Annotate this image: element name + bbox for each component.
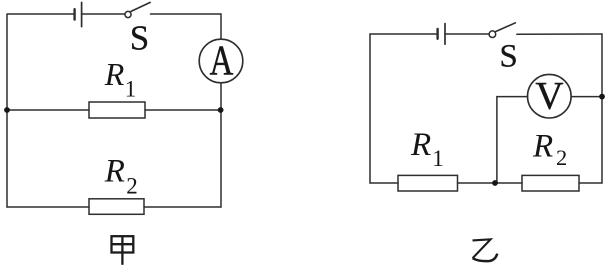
wire right of R2 (right circuit) <box>579 182 602 184</box>
wire battery to switch <box>82 13 125 15</box>
wire right-circuit left vertical <box>369 34 371 183</box>
wire left-circuit left vertical <box>6 14 8 207</box>
svg-text:S: S <box>130 19 149 58</box>
node right junction of R1 branch <box>218 107 224 113</box>
battery B2 long plate <box>444 24 446 45</box>
battery B2 short plate <box>436 29 438 39</box>
wire right-circuit top wire left part <box>370 33 437 35</box>
resistor R1 body (left circuit) <box>89 102 145 118</box>
node left junction of R1 branch <box>4 107 10 113</box>
resistor R1 body (right circuit) <box>398 175 458 191</box>
wire right-circuit right vertical <box>601 34 603 183</box>
node junction between R1 and R2 <box>492 180 498 186</box>
battery B1 long plate <box>81 2 83 26</box>
switch S2 lever <box>496 23 516 32</box>
wire switch to top-right corner <box>151 13 222 15</box>
wire switch to top-right corner (right) <box>517 33 602 35</box>
svg-text:1: 1 <box>125 77 137 102</box>
svg-text:V: V <box>535 74 563 117</box>
svg-text:A: A <box>210 38 234 85</box>
svg-text:R: R <box>104 56 125 92</box>
svg-text:2: 2 <box>556 145 567 170</box>
wire battery to switch (right) <box>445 33 489 35</box>
switch S1 pivot circle <box>125 11 131 17</box>
battery B1 short plate <box>73 9 75 19</box>
wire left-circuit top wire left part <box>8 13 75 15</box>
svg-text:R: R <box>532 129 553 165</box>
wire middle branch left of R1 <box>7 109 89 111</box>
label A inside ammeter <box>210 38 234 85</box>
wire bottom left of R1 (right circuit) <box>370 182 398 184</box>
wire voltmeter to right vertical <box>571 96 602 98</box>
ammeter U1 circle <box>199 39 243 83</box>
switch S2 pivot circle <box>489 31 496 38</box>
wire bottom right of R2 <box>144 206 221 208</box>
voltmeter U2 circle <box>528 74 572 118</box>
switch S1 lever <box>131 2 150 11</box>
resistor R2 body (right circuit) <box>522 175 579 191</box>
svg-text:2: 2 <box>126 174 138 199</box>
svg-text:R: R <box>104 154 125 190</box>
label 甲 (figure caption, drawn strokes) <box>112 236 134 265</box>
wire ammeter to bottom-right corner <box>220 83 222 207</box>
svg-text:S: S <box>499 38 517 74</box>
wire between R1 and R2 (right circuit) <box>458 182 523 184</box>
node voltmeter tap on right vertical <box>599 94 605 100</box>
label 乙 (figure caption, drawn strokes) <box>473 239 498 261</box>
wire left-circuit right vertical into ammeter <box>220 14 222 39</box>
wire voltmeter branch left segment <box>497 97 528 183</box>
svg-text:R: R <box>410 127 431 163</box>
resistor R2 body (left circuit) <box>89 199 144 215</box>
svg-text:1: 1 <box>432 146 444 171</box>
wire middle branch right of R1 <box>145 109 221 111</box>
wire bottom left of R2 <box>7 206 89 208</box>
